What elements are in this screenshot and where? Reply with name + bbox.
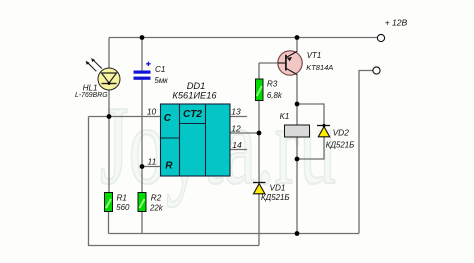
- svg-text:К561ИЕ16: К561ИЕ16: [172, 91, 217, 101]
- svg-text:КД521Б: КД521Б: [261, 193, 290, 202]
- svg-text:C: C: [164, 113, 172, 124]
- svg-text:14: 14: [232, 140, 242, 150]
- svg-text:L-769BRG: L-769BRG: [75, 92, 108, 99]
- svg-text:22k: 22k: [149, 203, 164, 212]
- svg-text:CT2: CT2: [183, 109, 202, 120]
- svg-text:K1: K1: [280, 112, 290, 121]
- svg-text:12: 12: [231, 123, 241, 133]
- svg-text:R2: R2: [151, 193, 162, 202]
- svg-text:C1: C1: [155, 65, 165, 74]
- svg-text:DD1: DD1: [187, 81, 206, 91]
- svg-text:6,8k: 6,8k: [267, 91, 283, 100]
- svg-text:R3: R3: [267, 80, 278, 89]
- svg-text:R1: R1: [117, 193, 127, 202]
- svg-text:10: 10: [147, 107, 157, 117]
- svg-text:11: 11: [147, 157, 156, 167]
- svg-text:VD1: VD1: [270, 183, 286, 192]
- svg-text:13: 13: [231, 107, 241, 117]
- svg-text:R: R: [165, 160, 173, 171]
- svg-text:5мк: 5мк: [155, 76, 169, 85]
- svg-text:КД521Б: КД521Б: [326, 140, 355, 149]
- svg-text:560: 560: [116, 203, 130, 212]
- svg-text:+ 12В: + 12В: [385, 18, 408, 28]
- svg-text:KT814A: KT814A: [306, 63, 333, 72]
- svg-text:VD2: VD2: [333, 128, 350, 138]
- svg-text:VT1: VT1: [307, 51, 321, 60]
